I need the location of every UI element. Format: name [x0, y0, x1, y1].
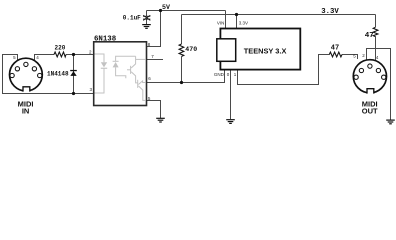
wire teensy 3.3V pin drop — [236, 15, 238, 29]
teensy USB connector box — [217, 39, 236, 62]
opto photodiode triangle — [113, 62, 119, 67]
wire MIDI-IN pin5 loop to opto pin3 — [3, 55, 94, 94]
wire 470 bottom lead — [181, 57, 183, 83]
wire opto pin7 stub — [147, 59, 164, 61]
diode D 1N4148 — [70, 70, 77, 76]
wire capacitor top lead — [146, 11, 148, 17]
ground under capacitor — [142, 25, 151, 29]
opto internals (gray) — [95, 54, 146, 100]
ground under MIDI-OUT pin2 — [386, 120, 395, 124]
svg-text:0.1uF: 0.1uF — [123, 14, 141, 21]
svg-text:VIN: VIN — [217, 21, 225, 26]
resistor R 47 horizontal — [329, 52, 342, 57]
junction node 3.3V rail/teensy-3.3V — [235, 13, 238, 16]
svg-text:47: 47 — [331, 45, 339, 53]
resistor R 220 — [54, 52, 66, 57]
wire 47 vertical to MIDI-OUT pin4 — [375, 37, 377, 61]
capacitor C 0.1uF — [143, 15, 150, 20]
svg-text:OUT: OUT — [362, 106, 378, 115]
opto LED triangle — [101, 62, 107, 67]
MIDI OUT DIN5 connector — [353, 60, 386, 94]
svg-text:5V: 5V — [162, 4, 170, 11]
opto-coupler U 6N138 box — [94, 42, 147, 106]
ground under opto pin5 — [156, 118, 165, 122]
resistor R 47 vertical — [373, 27, 378, 36]
svg-text:470: 470 — [185, 46, 197, 53]
wire MIDI-IN pin4 to 220 resistor — [35, 55, 55, 61]
svg-text:3.3V: 3.3V — [239, 21, 248, 26]
wire opto pin6 to teensy pin0 — [147, 70, 225, 83]
wire 220 resistor to opto pin2 — [66, 54, 94, 56]
svg-text:1N4148: 1N4148 — [47, 70, 69, 77]
svg-text:6N138: 6N138 — [94, 36, 117, 44]
junction node diode-cathode/220 — [72, 53, 75, 56]
teensy U TEENSY3.X box — [220, 29, 300, 70]
svg-text:3.3V: 3.3V — [321, 8, 339, 16]
wire 3.3V rail — [182, 14, 376, 16]
wire diode branch — [73, 55, 75, 94]
wire opto pin5 to ground — [147, 101, 161, 118]
ground under teensy GND — [226, 120, 235, 124]
wire 47 resistor to MIDI-OUT pin5 — [342, 55, 358, 60]
svg-text:GND: GND — [214, 72, 225, 77]
wire MIDI-OUT pin2 to ground — [367, 49, 391, 120]
junction node 470/opto-pin6 — [180, 81, 183, 84]
wire teensy pin1 to 47 resistor — [238, 55, 330, 85]
svg-text:IN: IN — [22, 106, 30, 115]
wire 5V rail — [147, 10, 226, 12]
junction node diode-anode/opto-pin3 — [72, 92, 75, 95]
MIDI IN DIN5 connector — [10, 58, 43, 92]
junction node 5V rail/opto-pin8 — [159, 9, 162, 12]
wire 470 top lead — [181, 15, 183, 45]
wire 3.3V to 47 vertical resistor — [375, 15, 377, 28]
wire teensy GND to ground — [230, 70, 232, 120]
svg-text:47: 47 — [365, 32, 375, 40]
wire VIN drop — [225, 11, 227, 29]
svg-text:TEENSY 3.X: TEENSY 3.X — [244, 46, 287, 55]
resistor R 470 — [179, 44, 184, 57]
wire capacitor bottom lead — [146, 19, 148, 24]
svg-text:220: 220 — [55, 44, 66, 51]
wire opto pin8 to 5V — [147, 11, 161, 47]
